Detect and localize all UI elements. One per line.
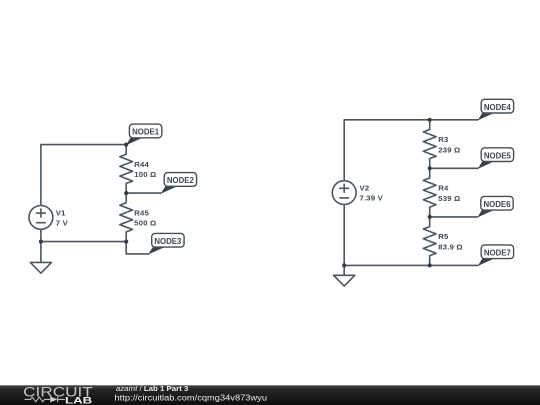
svg-text:azamt / Lab 1 Part 3: azamt / Lab 1 Part 3: [116, 384, 189, 393]
svg-text:NODE1: NODE1: [132, 127, 159, 137]
svg-text:NODE3: NODE3: [154, 236, 181, 246]
svg-text:NODE7: NODE7: [484, 248, 511, 258]
svg-text:R45: R45: [134, 208, 149, 217]
svg-text:83.9 Ω: 83.9 Ω: [438, 243, 462, 252]
svg-text:NODE4: NODE4: [484, 102, 511, 112]
svg-text:7.39 V: 7.39 V: [360, 194, 384, 203]
svg-text:100 Ω: 100 Ω: [134, 170, 156, 179]
svg-text:239 Ω: 239 Ω: [438, 145, 460, 154]
svg-text:500 Ω: 500 Ω: [134, 219, 156, 228]
svg-text:NODE2: NODE2: [167, 175, 194, 185]
svg-text:NODE5: NODE5: [484, 150, 511, 160]
svg-text:V2: V2: [360, 184, 370, 193]
svg-text:NODE6: NODE6: [484, 199, 511, 209]
svg-text:LAB: LAB: [65, 395, 92, 405]
svg-text:R5: R5: [438, 232, 449, 241]
svg-text:R44: R44: [134, 160, 149, 169]
svg-text:http://circuitlab.com/cqmg34v8: http://circuitlab.com/cqmg34v873wyu: [115, 393, 268, 402]
svg-text:539 Ω: 539 Ω: [438, 194, 460, 203]
svg-text:R3: R3: [438, 135, 448, 144]
svg-text:V1: V1: [56, 208, 66, 217]
svg-text:7 V: 7 V: [56, 218, 69, 227]
svg-text:R4: R4: [438, 184, 449, 193]
